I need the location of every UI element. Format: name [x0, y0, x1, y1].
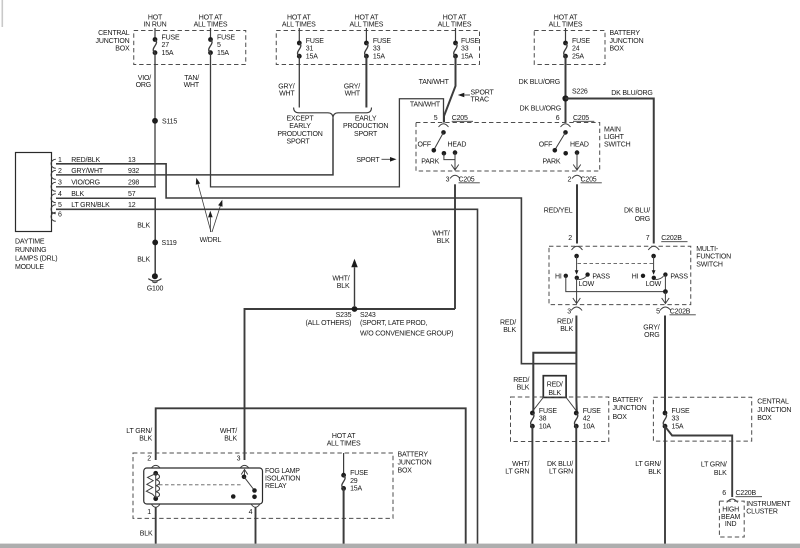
svg-text:2: 2 [58, 168, 62, 175]
svg-text:BLK: BLK [517, 384, 530, 391]
svg-text:JUNCTION: JUNCTION [757, 407, 791, 414]
svg-text:BATTERY: BATTERY [613, 397, 644, 404]
label box diagonal to fuse 42 [566, 397, 577, 411]
fuse 33 lower [663, 411, 668, 416]
battery junction box (top) [534, 31, 605, 65]
wire stub into fuse 5 [210, 28, 212, 40]
svg-text:33: 33 [373, 46, 381, 53]
svg-text:HOT AT: HOT AT [287, 14, 311, 21]
svg-text:HOT AT: HOT AT [443, 14, 467, 21]
svg-text:C205: C205 [452, 115, 468, 122]
svg-text:W/DRL: W/DRL [200, 237, 222, 244]
relay spare contact [231, 494, 236, 499]
fuse 31 [297, 41, 302, 46]
svg-text:FUSE: FUSE [350, 470, 368, 477]
MFS right section [651, 254, 656, 259]
svg-text:HEAD: HEAD [570, 141, 589, 148]
ground G100 [152, 273, 158, 279]
svg-text:HI: HI [632, 273, 639, 280]
fuse 27 [153, 37, 158, 42]
wire DK BLU/ORG fuse24 to S226 to switch pin 6 [565, 56, 567, 122]
svg-text:10A: 10A [539, 424, 551, 431]
svg-text:DK BLU/ORG: DK BLU/ORG [520, 106, 561, 113]
wire RED/BLK jog to fuse 38 [533, 353, 576, 412]
svg-text:FUSE: FUSE [672, 408, 690, 415]
svg-text:BLK: BLK [437, 238, 450, 245]
svg-text:JUNCTION: JUNCTION [96, 38, 130, 45]
svg-text:HOT AT: HOT AT [355, 14, 379, 21]
svg-text:HOT: HOT [148, 14, 163, 21]
svg-text:S115: S115 [162, 118, 177, 125]
svg-text:FUSE: FUSE [306, 38, 324, 45]
svg-text:OFF: OFF [539, 141, 552, 148]
svg-text:BLK: BLK [224, 436, 237, 443]
svg-text:LAMPS (DRL): LAMPS (DRL) [15, 255, 57, 262]
svg-text:SPORT: SPORT [471, 89, 495, 96]
svg-text:GRY/: GRY/ [643, 325, 660, 332]
relay pin arcs top [151, 465, 160, 467]
svg-text:PASS: PASS [670, 273, 688, 280]
svg-text:DAYTIME: DAYTIME [15, 238, 45, 245]
right switch output wire [576, 153, 578, 171]
wire GRY/WHT to DRL pin 2 [56, 118, 333, 175]
module pin connector arcs [51, 159, 56, 168]
svg-text:OFF: OFF [418, 141, 431, 148]
svg-text:TAN/WHT: TAN/WHT [410, 102, 441, 109]
svg-text:C205: C205 [573, 115, 589, 122]
svg-text:12: 12 [128, 202, 136, 209]
svg-text:15A: 15A [217, 50, 229, 57]
svg-text:4: 4 [58, 191, 62, 198]
svg-text:S226: S226 [572, 89, 588, 96]
main light switch box [416, 123, 600, 172]
svg-text:LT GRN/BLK: LT GRN/BLK [71, 202, 110, 209]
svg-text:BLK: BLK [137, 257, 150, 264]
svg-text:FUSE: FUSE [583, 408, 601, 415]
svg-text:7: 7 [646, 235, 650, 242]
svg-text:BLK: BLK [140, 531, 153, 538]
svg-text:31: 31 [306, 46, 314, 53]
svg-text:IND: IND [725, 521, 737, 528]
relay mechanical link dashed [159, 484, 242, 486]
wire TAN/WHT sport trac diagonal [444, 56, 456, 122]
svg-text:DK BLU/: DK BLU/ [624, 208, 650, 215]
wire pin1 RED/BLK long run [56, 164, 576, 364]
svg-text:15A: 15A [350, 486, 362, 493]
fog lamp isolation relay box [144, 468, 263, 504]
svg-text:DK BLU/ORG: DK BLU/ORG [519, 79, 560, 86]
wire GRY/ORG MFS pin5 to fuse 33 [664, 316, 666, 414]
svg-text:BEAM: BEAM [721, 514, 740, 521]
svg-text:TAN/WHT: TAN/WHT [419, 79, 450, 86]
svg-text:BLK: BLK [71, 191, 84, 198]
svg-text:6: 6 [722, 490, 726, 497]
svg-text:CLUSTER: CLUSTER [746, 509, 778, 516]
svg-text:MAIN: MAIN [604, 126, 621, 133]
right switch: common and blade [563, 130, 568, 135]
svg-text:BLK: BLK [714, 470, 727, 477]
svg-text:5: 5 [58, 202, 62, 209]
svg-text:15A: 15A [373, 54, 385, 61]
svg-text:IN RUN: IN RUN [143, 22, 166, 29]
svg-text:BLK: BLK [560, 326, 573, 333]
splice S235/S243 with arrow [352, 306, 358, 312]
svg-text:HEAD: HEAD [448, 141, 467, 148]
svg-text:3: 3 [446, 176, 450, 183]
svg-text:LOW: LOW [646, 281, 662, 288]
wire pin5 LT GRN/BLK long run [56, 209, 478, 548]
daytime running lamps (DRL) module box [16, 153, 52, 232]
svg-text:ALL TIMES: ALL TIMES [438, 22, 472, 29]
relay pin arcs bottom [152, 505, 160, 508]
svg-text:C205: C205 [581, 176, 597, 183]
svg-text:DK BLU/ORG: DK BLU/ORG [611, 90, 652, 97]
svg-text:15A: 15A [162, 50, 174, 57]
svg-text:ORG: ORG [635, 216, 650, 223]
fuse 38 [530, 411, 535, 416]
svg-text:SPORT: SPORT [356, 157, 380, 164]
svg-text:FUSE: FUSE [217, 34, 235, 41]
svg-text:5: 5 [217, 42, 221, 49]
svg-text:FUSE: FUSE [461, 38, 479, 45]
svg-text:6: 6 [58, 212, 62, 219]
left switch: common and blade [441, 130, 446, 135]
svg-text:BLK: BLK [137, 223, 150, 230]
svg-text:PASS: PASS [592, 273, 610, 280]
svg-text:BATTERY: BATTERY [398, 452, 429, 459]
MFS HI to pass-link wire [566, 276, 666, 292]
svg-text:LT GRN/: LT GRN/ [126, 428, 152, 435]
fuse 33 [364, 41, 369, 46]
wire LT GRN/BLK branch to instrument cluster [665, 426, 732, 497]
svg-text:TRAC: TRAC [471, 97, 489, 104]
svg-text:932: 932 [128, 168, 139, 175]
svg-text:RELAY: RELAY [265, 483, 287, 490]
wire stub into fuse 31 [298, 28, 300, 43]
svg-text:C202B: C202B [661, 235, 682, 242]
wire pin4 BLK to S119 and G100 [56, 198, 155, 276]
svg-text:3: 3 [58, 179, 62, 186]
svg-text:FOG LAMP: FOG LAMP [265, 468, 300, 475]
fuse 5 [208, 37, 213, 42]
wire WHT/LT GRN below fuse 38 [531, 426, 533, 548]
fuse 42 [574, 411, 579, 416]
svg-text:10A: 10A [583, 424, 595, 431]
svg-text:C220B: C220B [736, 490, 757, 497]
svg-text:LT GRN: LT GRN [505, 469, 529, 476]
svg-text:BLK: BLK [503, 327, 516, 334]
svg-text:LT GRN/: LT GRN/ [635, 461, 661, 468]
svg-text:C202B: C202B [670, 308, 691, 315]
svg-text:RED/: RED/ [557, 319, 573, 326]
framed RED/BLK label [543, 376, 566, 398]
svg-text:GRY/: GRY/ [344, 83, 361, 90]
svg-text:BOX: BOX [115, 45, 130, 52]
MFS right pass junction [664, 275, 666, 292]
svg-text:HOT AT: HOT AT [554, 14, 578, 21]
svg-text:WHT/: WHT/ [332, 275, 349, 282]
fuse box (fuses 31/33/33) [276, 31, 479, 65]
branch DK BLU/ORG to multifunction switch pin 7 [566, 99, 654, 244]
svg-text:BOX: BOX [757, 415, 772, 422]
relay + fuse 29 dashed box [133, 453, 393, 518]
svg-text:33: 33 [672, 416, 680, 423]
splice S119 [152, 240, 158, 246]
wire VIO/ORG fuse27 to S115 to DRL pin3 [154, 53, 156, 187]
central junction box (top) [134, 31, 246, 65]
relay switch blade [242, 475, 247, 480]
svg-text:SPORT: SPORT [286, 138, 310, 145]
page edge artifacts [2, 0, 4, 27]
fuse 33 sport trac [453, 41, 458, 46]
left switch park-head link [444, 153, 455, 159]
svg-text:BOX: BOX [610, 45, 625, 52]
svg-text:57: 57 [128, 191, 136, 198]
svg-text:WHT: WHT [184, 82, 200, 89]
svg-text:RED/: RED/ [513, 377, 529, 384]
splice S115 [152, 118, 158, 124]
svg-text:2: 2 [147, 456, 151, 463]
label box diagonal to fuse 38 [533, 397, 544, 411]
svg-text:EARLY: EARLY [355, 116, 377, 123]
svg-text:VIO/ORG: VIO/ORG [71, 179, 100, 186]
svg-text:33: 33 [461, 46, 469, 53]
svg-text:ALL TIMES: ALL TIMES [282, 22, 316, 29]
svg-text:VIO/: VIO/ [138, 75, 152, 82]
svg-text:ORG: ORG [644, 332, 659, 339]
MFS left section [574, 254, 579, 259]
svg-text:ALL TIMES: ALL TIMES [327, 441, 361, 448]
svg-text:WHT/: WHT/ [512, 461, 529, 468]
svg-text:RED/BLK: RED/BLK [71, 157, 100, 164]
wire GRY/WHT from fuse 31 [298, 56, 300, 107]
multifunction switch box [549, 246, 691, 304]
svg-text:HOT AT: HOT AT [199, 14, 223, 21]
svg-text:LT GRN/: LT GRN/ [701, 461, 727, 468]
svg-text:BLK: BLK [648, 469, 661, 476]
svg-text:1: 1 [58, 157, 62, 164]
wire pin3 VIO/ORG row [56, 186, 156, 188]
wire WHT/BLK switch pin3 down [454, 184, 456, 309]
svg-text:WHT/: WHT/ [432, 230, 449, 237]
wire stub into fuse 24 [565, 28, 567, 43]
splice S226 [562, 95, 568, 101]
wire relay pin 4 down [255, 508, 257, 548]
svg-text:BLK: BLK [139, 436, 152, 443]
wire LT GRN/BLK relay coil feed run [156, 408, 466, 548]
svg-text:RED/: RED/ [500, 320, 516, 327]
svg-text:HI: HI [555, 273, 562, 280]
svg-text:PARK: PARK [421, 158, 439, 165]
svg-text:3: 3 [237, 456, 241, 463]
svg-text:BLK: BLK [548, 390, 561, 397]
svg-text:15A: 15A [461, 54, 473, 61]
svg-text:24: 24 [572, 46, 580, 53]
svg-text:RED/: RED/ [547, 382, 563, 389]
svg-text:FUNCTION: FUNCTION [696, 254, 731, 261]
svg-text:FUSE: FUSE [539, 408, 557, 415]
svg-text:(ALL OTHERS): (ALL OTHERS) [306, 320, 352, 327]
wire below fuse 29 [343, 488, 345, 548]
svg-text:S235: S235 [336, 312, 352, 319]
fuse 24 [563, 41, 568, 46]
svg-text:TAN/: TAN/ [184, 75, 199, 82]
wire into fuse 29 [343, 453, 345, 475]
svg-text:SPORT: SPORT [354, 131, 378, 138]
svg-text:4: 4 [249, 509, 253, 516]
svg-text:38: 38 [539, 416, 547, 423]
svg-text:13: 13 [128, 157, 136, 164]
svg-text:1: 1 [147, 509, 151, 516]
svg-text:RUNNING: RUNNING [15, 247, 46, 254]
svg-text:PRODUCTION: PRODUCTION [277, 131, 322, 138]
svg-text:PARK: PARK [543, 158, 561, 165]
fuse 29 [341, 473, 346, 478]
battery junction box (lower) [511, 397, 609, 442]
svg-text:HOT AT: HOT AT [332, 433, 356, 440]
left switch output wire [454, 153, 456, 171]
svg-text:PRODUCTION: PRODUCTION [343, 123, 388, 130]
wire GRY/WHT from fuse 33 [365, 56, 367, 107]
svg-text:S243: S243 [360, 312, 376, 319]
svg-text:29: 29 [350, 478, 358, 485]
svg-text:298: 298 [128, 179, 139, 186]
svg-text:6: 6 [556, 115, 560, 122]
svg-text:BATTERY: BATTERY [610, 30, 641, 37]
svg-text:15A: 15A [306, 54, 318, 61]
svg-text:INSTRUMENT: INSTRUMENT [746, 501, 791, 508]
svg-text:ORG: ORG [136, 82, 151, 89]
w/drl callout arrows [198, 184, 211, 232]
instrument cluster box [719, 501, 744, 537]
svg-text:JUNCTION: JUNCTION [398, 459, 432, 466]
MFS exits [576, 278, 578, 303]
svg-text:5: 5 [434, 115, 438, 122]
wire BLK relay pin 1 down [155, 508, 157, 548]
svg-text:25A: 25A [572, 54, 584, 61]
brace joining GRY/WHT wires [294, 108, 372, 119]
svg-text:WHT: WHT [279, 91, 295, 98]
svg-text:JUNCTION: JUNCTION [610, 38, 644, 45]
wire stub into fuse 33 [365, 28, 367, 43]
svg-text:CENTRAL: CENTRAL [757, 399, 789, 406]
svg-text:42: 42 [583, 416, 591, 423]
wire DK BLU/LT GRN below fuse 42 [575, 426, 577, 548]
svg-text:RED/YEL: RED/YEL [544, 208, 573, 215]
svg-text:ALL TIMES: ALL TIMES [350, 22, 384, 29]
svg-text:SWITCH: SWITCH [604, 142, 631, 149]
svg-text:GRY/: GRY/ [278, 83, 295, 90]
svg-text:ALL TIMES: ALL TIMES [549, 22, 583, 29]
wire LT GRN/BLK below fuse 33 down [664, 426, 666, 548]
svg-text:CENTRAL: CENTRAL [98, 30, 130, 37]
svg-text:BLK: BLK [337, 283, 350, 290]
svg-text:DK BLU/: DK BLU/ [547, 461, 573, 468]
wire stub into fuse 33 (sport trac) [455, 28, 457, 43]
svg-text:W/O CONVENIENCE GROUP): W/O CONVENIENCE GROUP) [360, 330, 453, 337]
svg-text:2: 2 [567, 176, 571, 183]
svg-text:ISOLATION: ISOLATION [265, 475, 300, 482]
svg-text:FUSE: FUSE [572, 38, 590, 45]
svg-text:C205: C205 [459, 176, 475, 183]
svg-text:FUSE: FUSE [162, 34, 180, 41]
svg-text:FUSE: FUSE [373, 38, 391, 45]
svg-text:5: 5 [656, 308, 660, 315]
wire WHT/BLK run to relay [245, 309, 456, 460]
svg-text:JUNCTION: JUNCTION [613, 405, 647, 412]
svg-text:EXCEPT: EXCEPT [287, 116, 315, 123]
MFS mechanical link dashed [578, 262, 654, 264]
relay internal up arrow at pin 3 [244, 470, 246, 477]
svg-text:HIGH: HIGH [722, 507, 739, 514]
wire RED/YEL switch pin2 to MFS pin2 [576, 184, 578, 243]
svg-text:GRY/WHT: GRY/WHT [71, 168, 104, 175]
relay coil [153, 471, 158, 476]
svg-text:BOX: BOX [613, 414, 628, 421]
svg-text:S119: S119 [162, 240, 177, 247]
svg-text:BOX: BOX [398, 467, 413, 474]
svg-text:3: 3 [567, 308, 571, 315]
wire RED/BLK MFS pin3 down to fuse 42 [575, 316, 577, 412]
svg-text:WHT: WHT [345, 91, 361, 98]
svg-text:MODULE: MODULE [15, 264, 44, 271]
svg-text:LT GRN: LT GRN [549, 469, 573, 476]
svg-text:(SPORT, LATE PROD,: (SPORT, LATE PROD, [360, 320, 428, 327]
central junction box (lower) [653, 397, 751, 441]
svg-text:2: 2 [568, 235, 572, 242]
svg-text:LIGHT: LIGHT [604, 134, 625, 141]
bottom gray band [0, 544, 800, 548]
wire stub into fuse 27 [154, 28, 156, 40]
svg-text:LOW: LOW [579, 281, 595, 288]
svg-text:G100: G100 [147, 285, 164, 292]
svg-text:MULTI-: MULTI- [696, 246, 719, 253]
svg-text:EARLY: EARLY [289, 123, 311, 130]
svg-text:WHT/: WHT/ [220, 428, 237, 435]
svg-text:15A: 15A [672, 424, 684, 431]
svg-text:ALL TIMES: ALL TIMES [194, 22, 228, 29]
svg-text:27: 27 [162, 42, 170, 49]
svg-text:SWITCH: SWITCH [696, 261, 723, 268]
